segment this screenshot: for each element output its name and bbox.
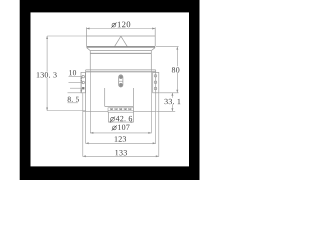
left bracket hole 2: [82, 81, 85, 84]
label 133: [115, 150, 127, 155]
label d42.6: [110, 116, 132, 122]
dim 123 line: [86, 142, 156, 144]
arrow d42.6 left: [109, 121, 112, 123]
dim 10 lower extension: [69, 81, 84, 83]
arrow 10 upper: [80, 77, 82, 79]
black mat frame: [20, 0, 200, 180]
center capsule slot: [119, 75, 123, 87]
label 10: [69, 70, 76, 75]
arrow 8.5 upper: [80, 88, 82, 90]
dim 130.3 top leader: [47, 35, 86, 37]
arrow d42.6 right: [131, 121, 134, 123]
text mask 130.3: [37, 72, 57, 78]
capsule mid line: [119, 80, 123, 82]
triangle vent left side: [115, 36, 121, 46]
neck left wall: [89, 51, 91, 70]
box top line 2: [86, 71, 156, 73]
right bracket hole 2: [154, 81, 157, 84]
arrow 133 left: [83, 155, 86, 157]
arrow d107 left: [90, 132, 93, 134]
triangle vent right side: [121, 36, 127, 46]
arrow 33.1 top: [171, 93, 173, 96]
label 80: [172, 67, 180, 72]
dim d107 left extension: [89, 70, 91, 133]
right bevel: [151, 48, 155, 51]
arrow d120 right: [152, 28, 155, 30]
arrow 130.3 top: [46, 36, 48, 39]
cap left side and d120 extension: [86, 27, 88, 46]
dim d107 right extension: [150, 70, 152, 133]
box top line: [86, 69, 156, 71]
left bracket slot: [82, 87, 84, 89]
dim 133 left extension: [82, 93, 84, 157]
terminal strip band: [108, 108, 133, 112]
recess ceiling line: [105, 105, 134, 107]
dim 33.1 bottom extension: [156, 110, 175, 112]
right bracket plate: [153, 72, 159, 92]
dim 80 bottom extension: [159, 92, 178, 94]
text mask 33.1: [165, 98, 182, 105]
arrow 80 top: [176, 47, 178, 50]
page background: [0, 0, 220, 180]
white drawing sheet: [31, 12, 190, 166]
neck right wall: [150, 51, 152, 70]
ridge line A: [90, 50, 151, 52]
label d107: [112, 125, 130, 131]
dim 130.3 bottom leader: [47, 110, 86, 112]
dim 33.1 line: [171, 93, 173, 112]
label d120: [111, 22, 130, 28]
shoulder thick line: [87, 46, 156, 48]
box left wall: [85, 70, 87, 111]
recess left wall: [104, 88, 106, 106]
dim 8.5 upper extension: [70, 87, 82, 89]
capsule dark bottom: [119, 83, 122, 87]
left bracket plate: [81, 72, 85, 92]
dim 80 top extension: [156, 46, 179, 48]
dim 10 and 8.5 vertical line: [80, 77, 82, 93]
cap right side and d120 extension: [154, 27, 156, 46]
dim 80 line: [176, 47, 178, 93]
dim 130.3 vertical line: [46, 36, 48, 111]
left bevel: [87, 48, 91, 51]
arrow 133 right: [156, 155, 159, 157]
arrow d120 left: [87, 28, 90, 30]
arrow 10 lower: [80, 80, 82, 82]
arrow 130.3 bottom: [46, 108, 48, 111]
dim d42.6 line: [109, 121, 134, 123]
label 8.5: [68, 97, 79, 102]
label 123: [115, 136, 126, 141]
label 130.3: [37, 72, 57, 77]
dim d107 line: [90, 132, 151, 134]
dim d120 line: [87, 28, 156, 30]
box right wall: [155, 70, 157, 111]
arrow 123 left: [86, 142, 89, 144]
arrow 80 bottom: [176, 90, 178, 93]
dim 133 right extension: [158, 93, 160, 157]
cap top line: [87, 35, 156, 37]
ridge line B: [90, 52, 151, 54]
dim 123 left extension: [85, 111, 87, 143]
dim 8.5 lower extension: [68, 92, 83, 94]
box bottom face: [83, 110, 156, 112]
d42.6 right extension: [132, 106, 134, 122]
left bracket hole 1: [82, 75, 85, 78]
arrow d107 right: [148, 132, 151, 134]
recess right wall: [132, 88, 134, 106]
right bracket hole 3: [154, 87, 157, 90]
arrow 8.5 lower: [80, 90, 82, 92]
right bracket hole 1: [154, 75, 157, 78]
arrow 33.1 bottom: [171, 108, 173, 111]
d42.6 left extension: [108, 108, 110, 122]
dim 123 right extension: [155, 111, 157, 143]
label 33.1: [164, 99, 180, 104]
dim 8.5 underline: [68, 102, 78, 104]
text mask 80: [171, 66, 180, 73]
arrow 123 right: [153, 142, 156, 144]
dim 133 line: [83, 155, 159, 157]
dim 10 upper extension: [69, 76, 83, 78]
capsule dark top: [119, 75, 122, 79]
